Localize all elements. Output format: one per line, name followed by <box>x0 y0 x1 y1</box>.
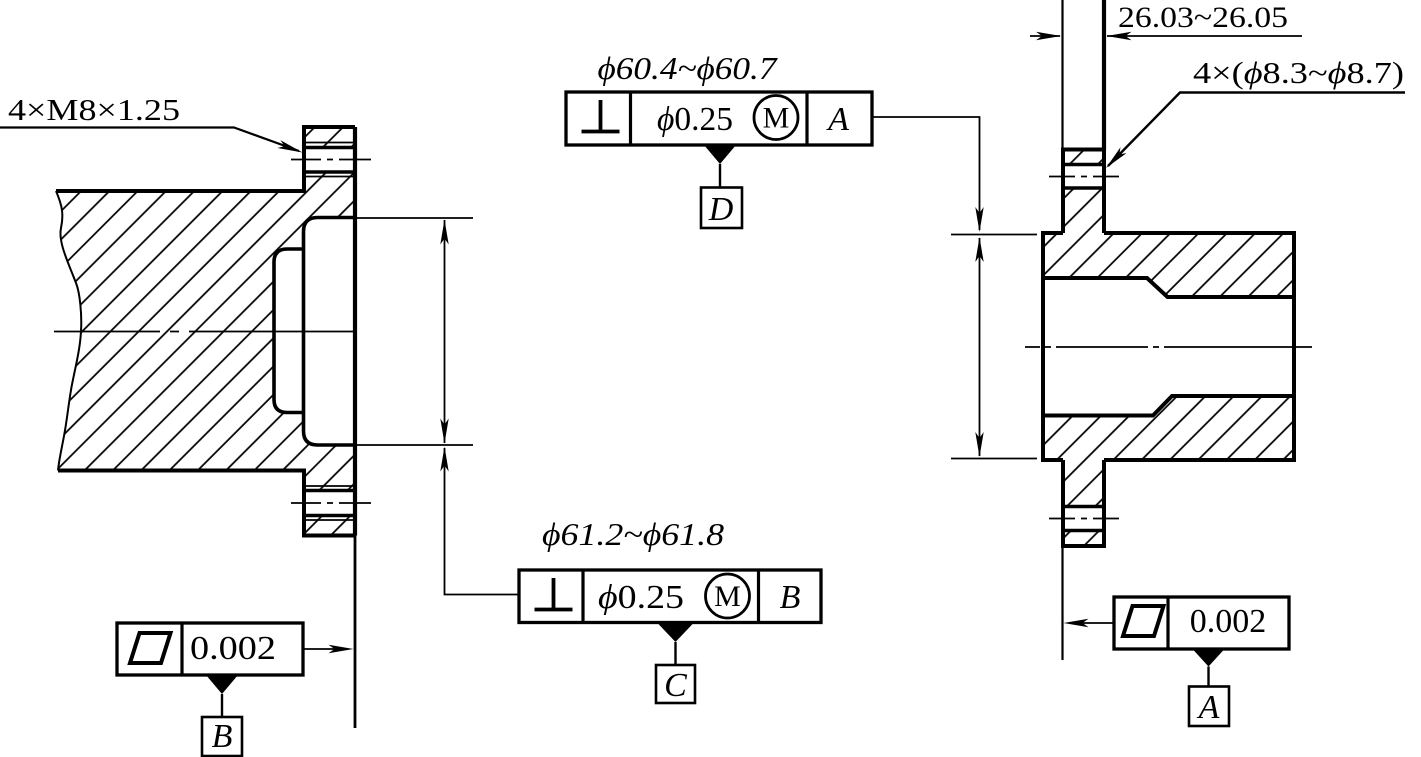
left bottom threaded hole slot <box>303 492 355 515</box>
right bottom bolt hole slot <box>1062 508 1105 530</box>
svg-text:0.002: 0.002 <box>190 630 276 667</box>
dimension line 26.03 left part <box>1030 35 1060 37</box>
left top threaded hole M8 lines <box>304 143 355 177</box>
left outer recess outline <box>304 218 357 446</box>
svg-text:M: M <box>714 580 741 613</box>
label 4xM8 underline leader <box>0 128 299 152</box>
right flange hatched body <box>1043 150 1294 547</box>
datum box D <box>701 188 742 229</box>
left flange face extension down to datum B arrow <box>354 536 357 729</box>
left flange face line <box>353 127 357 536</box>
right bore outline upper <box>1043 278 1294 297</box>
frame D M circle modifier <box>754 96 798 140</box>
right bottom bolt hole tab outline <box>1063 460 1104 546</box>
svg-text:4×M8×1.25: 4×M8×1.25 <box>8 92 180 127</box>
left recess bottom extension line <box>357 444 473 446</box>
datum box B <box>202 717 242 756</box>
frame C datum stem <box>674 642 676 665</box>
dimension line 26.03 right part <box>1107 35 1302 37</box>
left dimension top arrowhead <box>440 220 448 245</box>
feature control frame D box <box>566 92 872 145</box>
svg-text:B: B <box>212 718 233 755</box>
feature control frame B box <box>117 623 303 675</box>
right bore cavity <box>1041 278 1294 416</box>
right body outline <box>1043 233 1294 460</box>
left bottom hole centerline <box>291 502 371 504</box>
left inner recess outline <box>274 249 304 413</box>
frame A datum stem <box>1207 667 1209 688</box>
label 4x underline leader <box>1108 93 1405 167</box>
label 4x leader arrowhead <box>1103 147 1126 171</box>
frame D leader to right figure <box>872 117 980 230</box>
right spigot diameter dimension line <box>979 238 981 456</box>
svg-text:ϕ0.25: ϕ0.25 <box>598 579 684 616</box>
svg-text:0.002: 0.002 <box>1190 603 1267 640</box>
right tab left edge extension line up <box>1061 0 1063 150</box>
right bottom hole centerline <box>1049 518 1119 520</box>
left body bottom edge and bottom tab outline <box>58 471 355 536</box>
right tab left edge extension line down <box>1061 546 1063 660</box>
left wavy break line <box>56 191 81 471</box>
left top threaded hole slot <box>303 149 355 172</box>
flatness symbol in frame B <box>130 633 171 663</box>
frame A datum triangle <box>1193 649 1225 667</box>
frame B datum triangle <box>206 675 238 694</box>
datum box C <box>656 665 695 703</box>
left bottom threaded hole M8 lines <box>304 486 355 520</box>
feature control frame A box <box>1114 597 1289 649</box>
right top bolt hole slot <box>1062 166 1105 188</box>
left top hole centerline <box>291 159 371 161</box>
right top bolt hole lines <box>1063 165 1104 189</box>
frame B arrow to face <box>303 648 345 650</box>
frame C M circle modifier <box>706 574 750 618</box>
right top hole centerline <box>1049 176 1119 178</box>
svg-text:ϕ61.2~ϕ61.8: ϕ61.2~ϕ61.8 <box>542 516 724 552</box>
right top extension line <box>951 234 1037 236</box>
left main centerline <box>54 331 357 333</box>
frame C leader elbow <box>445 448 520 595</box>
frame B datum stem <box>221 694 223 717</box>
perpendicularity symbol in frame C <box>535 578 573 610</box>
frame A arrow to tab edge <box>1072 622 1114 624</box>
svg-text:ϕ0.25: ϕ0.25 <box>657 101 733 138</box>
datum box A <box>1189 687 1229 727</box>
left outer recess cavity <box>304 218 357 446</box>
svg-text:M: M <box>763 102 790 135</box>
svg-text:C: C <box>664 667 687 704</box>
svg-text:D: D <box>708 191 734 228</box>
svg-text:A: A <box>826 101 849 138</box>
frame D datum triangle <box>704 145 736 164</box>
feature control frame C box <box>519 570 821 623</box>
svg-text:A: A <box>1197 689 1220 726</box>
svg-text:ϕ60.4~ϕ60.7: ϕ60.4~ϕ60.7 <box>598 50 779 86</box>
svg-text:4×(ϕ8.3~ϕ8.7): 4×(ϕ8.3~ϕ8.7) <box>1193 55 1404 90</box>
right bottom bolt hole lines <box>1063 507 1104 531</box>
left recess diameter dimension line <box>444 220 446 443</box>
frame C datum triangle <box>657 623 694 643</box>
right bore outline lower <box>1043 396 1294 416</box>
frame D leader arrowhead down <box>975 207 983 232</box>
perpendicularity symbol in frame D <box>582 100 620 132</box>
right tab right edge line up <box>1102 0 1106 150</box>
label 4xM8 leader arrowhead <box>278 140 304 156</box>
frame C leader arrowhead <box>440 447 448 472</box>
right bottom extension line <box>951 458 1037 460</box>
left body top edge and top tab outline <box>56 127 355 191</box>
right dimension top arrowhead <box>975 237 983 262</box>
right dimension bottom arrowhead <box>975 432 983 457</box>
left dimension bottom arrowhead <box>440 419 448 444</box>
svg-text:B: B <box>780 579 801 616</box>
flatness symbol in frame A <box>1123 606 1164 636</box>
left recess top extension line <box>357 217 473 219</box>
right main centerline <box>1025 346 1312 348</box>
left inner recess cavity <box>274 249 304 413</box>
svg-text:26.03~26.05: 26.03~26.05 <box>1118 1 1288 34</box>
frame D datum stem <box>719 164 721 188</box>
right top bolt hole tab outline <box>1063 150 1104 234</box>
left housing section hatched body <box>56 127 355 536</box>
